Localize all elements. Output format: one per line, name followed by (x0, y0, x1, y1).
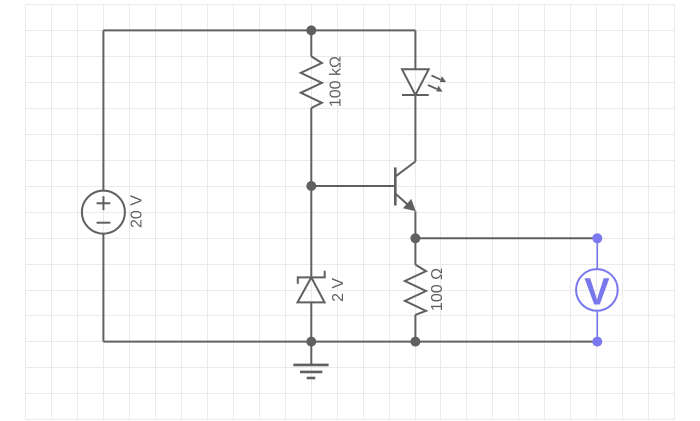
wire left vertical top (102, 30, 104, 190)
junction node emitter (410, 233, 420, 243)
zener diode 2V (298, 271, 325, 303)
voltmeter M1 (576, 238, 618, 341)
voltmeter terminal top (592, 233, 602, 243)
LED D1 (402, 69, 429, 95)
voltmeter terminal bottom (592, 337, 602, 347)
resistor 100k (301, 56, 322, 108)
svg-text:V: V (584, 272, 610, 314)
junction node top (306, 25, 316, 35)
junction node resistor bottom (410, 337, 420, 347)
label 100 Ohm (429, 268, 446, 311)
svg-text:20 V: 20 V (128, 195, 145, 228)
resistor 100ohm (405, 265, 426, 315)
wire zener to bottom (310, 302, 312, 341)
svg-text:100 kΩ: 100 kΩ (327, 56, 344, 107)
wire 100ohm bottom lead (414, 315, 416, 342)
wire base horizontal (311, 185, 395, 187)
label 2 V (330, 278, 347, 302)
junction node ground (306, 337, 316, 347)
wire bottom horizontal (103, 341, 597, 343)
transistor Q1 npn (395, 95, 415, 211)
wire left vertical bottom (102, 234, 104, 342)
svg-text:100 Ω: 100 Ω (429, 268, 446, 311)
label 20 V (128, 195, 145, 228)
svg-text:2 V: 2 V (330, 278, 347, 302)
wire emitter vertical (414, 211, 416, 238)
wire 100ohm top lead (414, 238, 416, 264)
voltage source V1 20V (82, 191, 125, 234)
wire top-right vertical to LED (414, 30, 416, 69)
wire top horizontal (103, 29, 415, 31)
wire 100k top lead (310, 30, 312, 56)
wire base node to zener (310, 186, 312, 277)
wire 100k bottom lead to base node (310, 108, 312, 186)
junction node base (306, 181, 316, 191)
ground (293, 342, 328, 378)
LED arrows (428, 76, 446, 92)
label 100 kOhm (327, 56, 344, 107)
wire emitter node to voltmeter (415, 237, 597, 239)
